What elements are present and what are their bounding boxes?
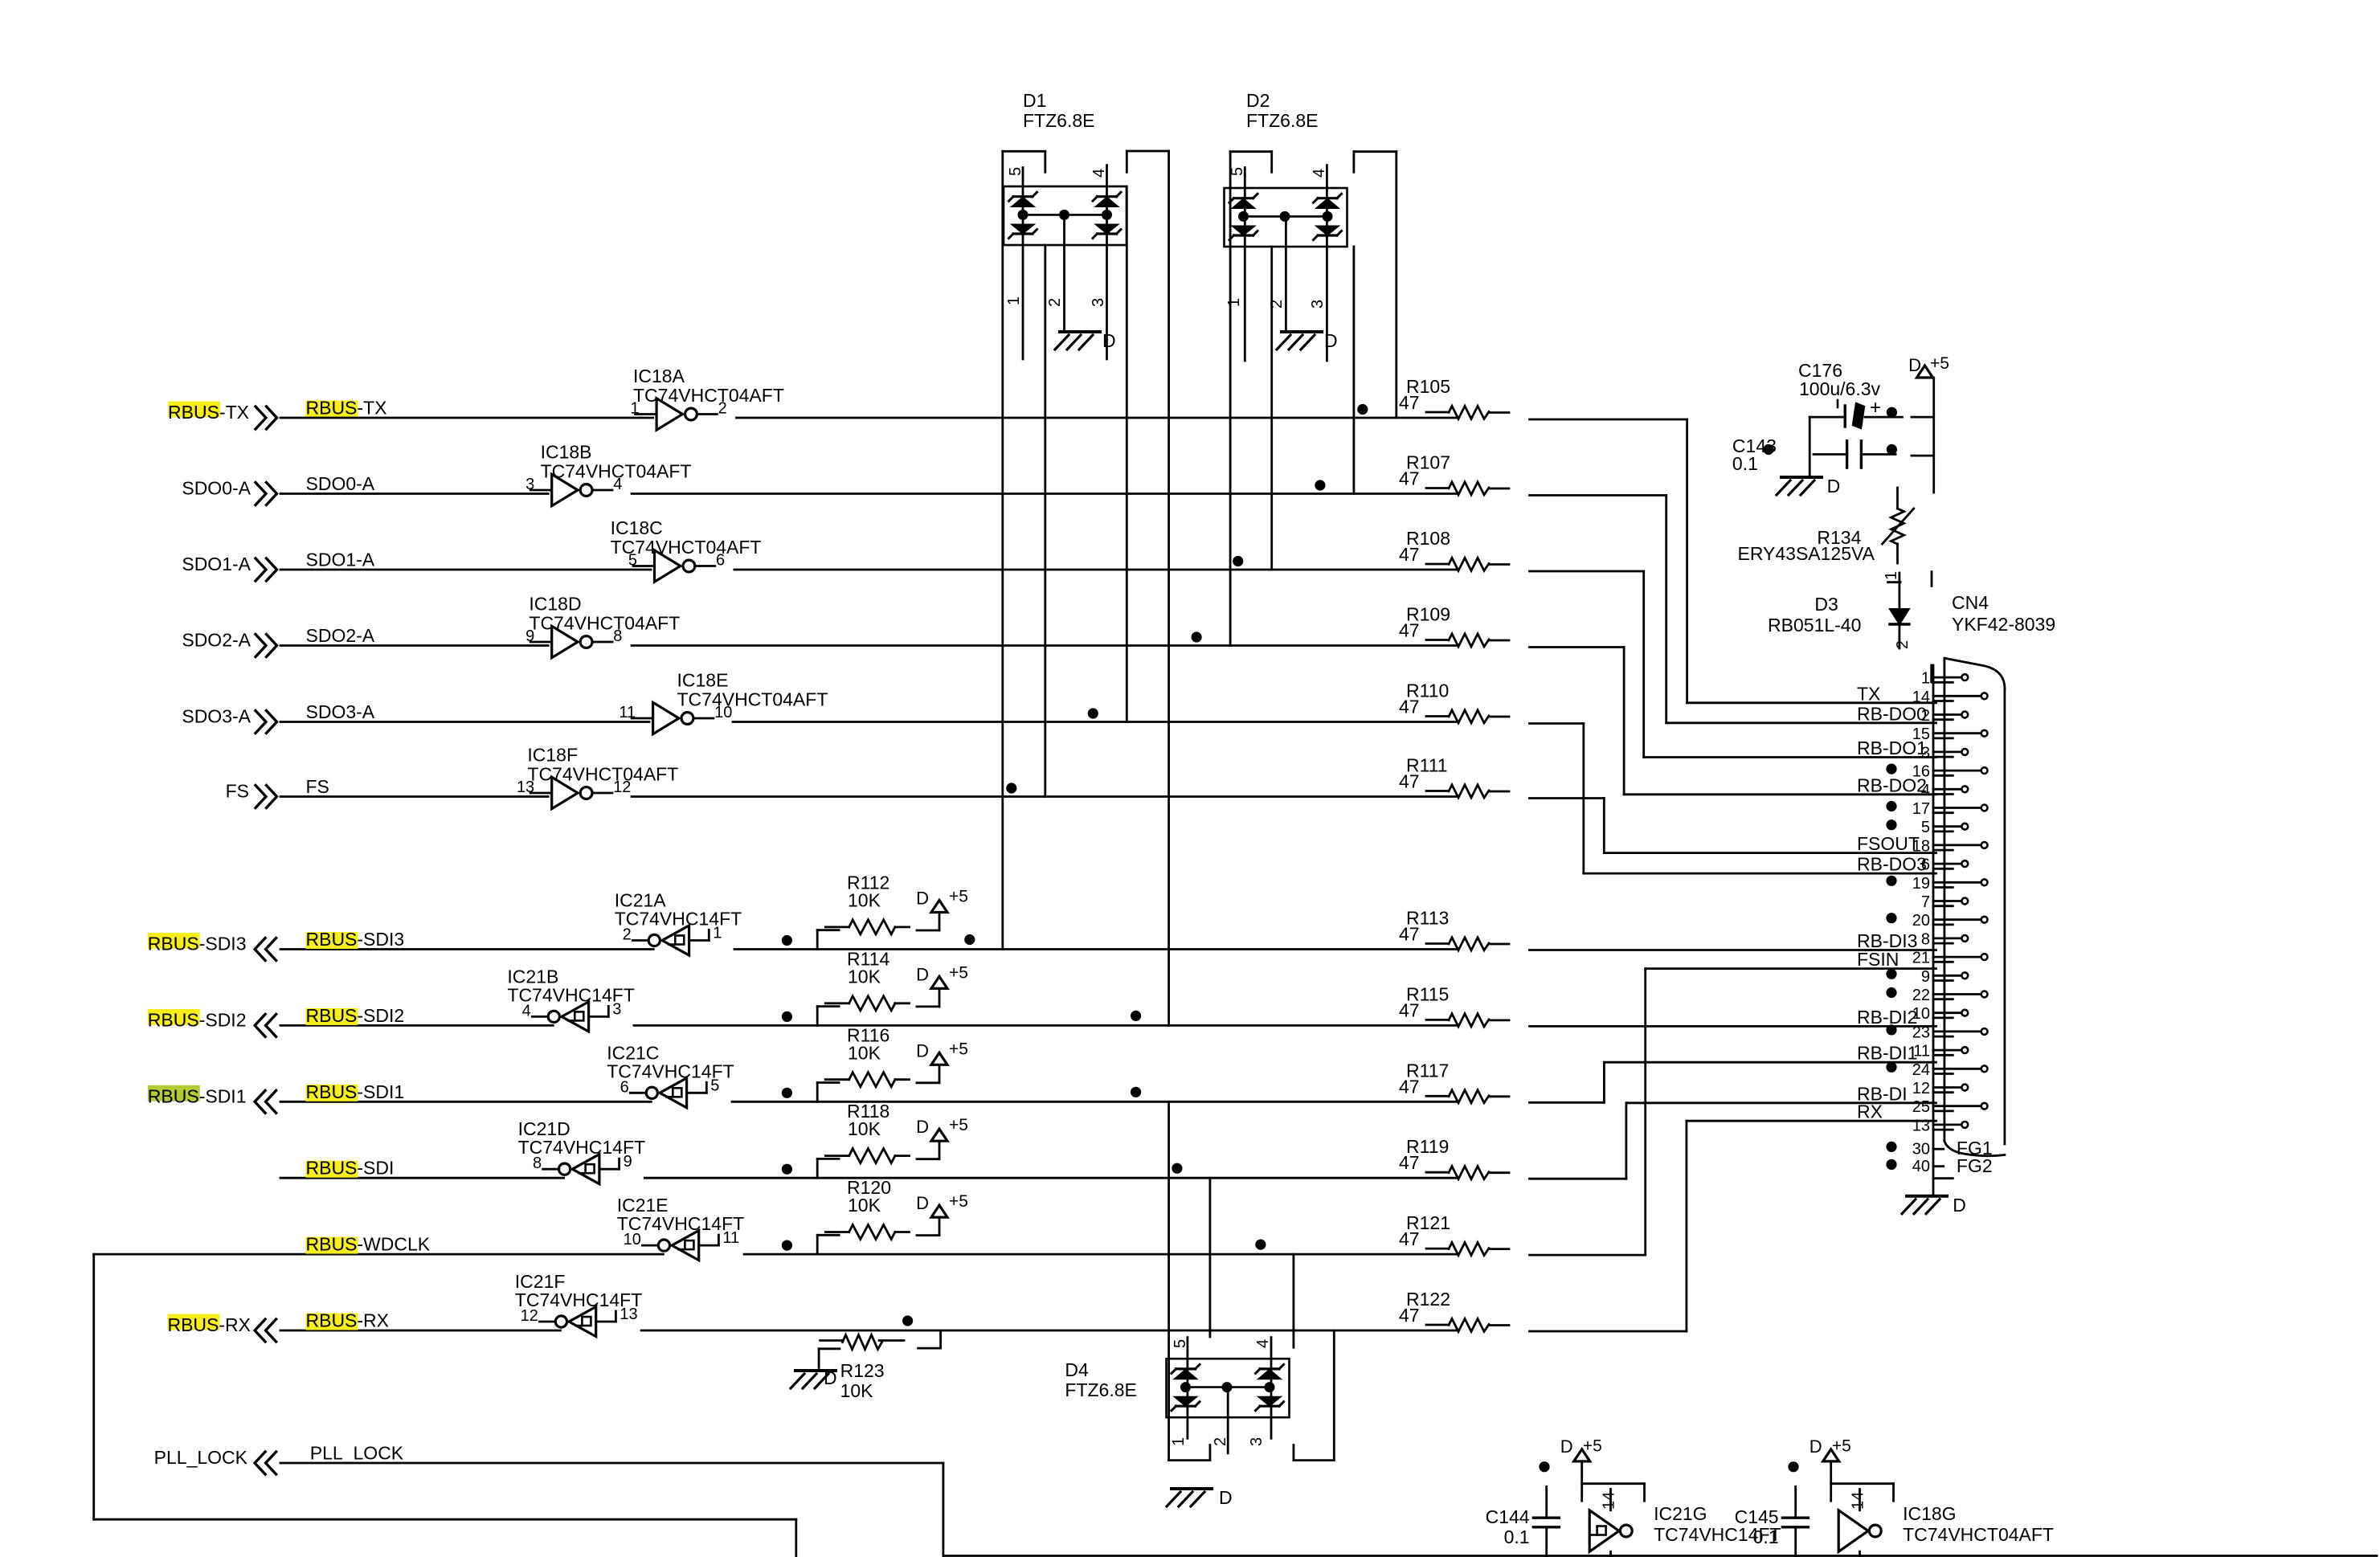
signal label RX — [1857, 1101, 1883, 1122]
junction dot (C176) — [1887, 407, 1897, 418]
wire bus v3 (to SDO3 row) — [1126, 151, 1128, 722]
signal label FSIN — [1857, 949, 1899, 970]
svg-text:RBUS-SDI1: RBUS-SDI1 — [306, 1081, 405, 1102]
schmitt inverter IC21F TC74VHC14FT — [515, 1271, 642, 1337]
net label PLL_LOCK — [310, 1443, 404, 1464]
diode array D4 FTZ6.8E — [1065, 1338, 1289, 1453]
power D+5 (R116) — [916, 1040, 968, 1065]
junction dot (SDO0 row) — [1315, 480, 1325, 490]
junction dot (pullup RBUS-SDI2) — [782, 1011, 792, 1022]
wire IC18A output line — [737, 417, 1458, 419]
svg-text:SDO0-A: SDO0-A — [306, 473, 375, 494]
net label SDO2-A — [306, 625, 375, 646]
connector CN4 pin 2 — [1921, 707, 1968, 725]
inverter IC18F TC74VHCT04AFT — [517, 745, 678, 809]
signal label FSOUT — [1857, 833, 1920, 854]
svg-text:IC18G: IC18G — [1903, 1503, 1956, 1524]
svg-text:47: 47 — [1399, 999, 1420, 1020]
connector CN4 pin 23 — [1886, 1024, 1987, 1041]
net label RBUS-WDCLK — [306, 1234, 431, 1255]
wire IC21E line to resistors — [744, 1253, 1457, 1256]
wire RB-DI route — [1530, 1103, 1936, 1179]
wire bus v8 (D2 right to RBUS-TX row) — [1395, 152, 1397, 418]
wire IC18F output line — [632, 795, 1457, 798]
svg-text:TC74VHC14FT: TC74VHC14FT — [518, 1137, 645, 1158]
wire CN4 pin bus — [1932, 665, 1935, 1195]
port RBUS-TX output chevron — [256, 407, 277, 429]
svg-text:10K: 10K — [848, 890, 881, 911]
wire route to RB-DO2 — [1530, 648, 1936, 795]
wire SDO3-A input line — [280, 721, 649, 723]
signal label RB-DI — [1857, 1083, 1908, 1104]
wire RX route — [1530, 1121, 1936, 1331]
svg-text:2: 2 — [1894, 640, 1912, 649]
connector CN4 pin 22 — [1886, 987, 1987, 1004]
wire stub (R134/D3) — [1931, 572, 1933, 586]
net label SDO1-A — [306, 550, 375, 570]
wire IC21B line to resistors — [634, 1024, 1457, 1027]
svg-text:RB-DO0: RB-DO0 — [1857, 703, 1927, 724]
wire D2 top-right bracket — [1354, 150, 1397, 153]
svg-text:TC74VHC14FT: TC74VHC14FT — [615, 909, 742, 930]
wire IC18B output line — [632, 492, 1457, 495]
svg-text:RB-DO3: RB-DO3 — [1857, 854, 1927, 875]
signal label RB-DI3 — [1857, 930, 1917, 951]
wire SDO2-A input line — [280, 644, 548, 647]
svg-text:14: 14 — [1850, 1492, 1867, 1510]
svg-text:14: 14 — [1601, 1492, 1618, 1510]
svg-text:TC74VHCT04AFT: TC74VHCT04AFT — [527, 764, 678, 785]
connector CN4 pin 4 — [1921, 782, 1968, 799]
wire SDO0-A input line — [280, 492, 548, 495]
svg-text:SDO2-A: SDO2-A — [306, 625, 375, 646]
svg-text:5: 5 — [1921, 819, 1930, 836]
wire bus v4 (D1 right to RBUS-SDI2 row) — [1168, 151, 1170, 1025]
svg-text:RBUS-WDCLK: RBUS-WDCLK — [306, 1234, 431, 1255]
connector CN4 pin 19 — [1886, 875, 1987, 893]
wire bus v7 (to SDO0 row) — [1353, 152, 1356, 494]
wire FSIN route — [1530, 969, 1936, 1256]
svg-text:1: 1 — [1883, 571, 1900, 580]
schmitt inverter IC21B TC74VHC14FT — [507, 966, 634, 1032]
svg-text:11: 11 — [619, 704, 636, 721]
wire C176/C143 left — [1809, 417, 1811, 476]
svg-text:YKF42-8039: YKF42-8039 — [1952, 614, 2055, 635]
svg-text:9: 9 — [1921, 968, 1930, 986]
svg-text:+5: +5 — [949, 1116, 968, 1134]
svg-text:47: 47 — [1399, 1228, 1420, 1249]
svg-text:0.1: 0.1 — [1753, 1526, 1779, 1547]
svg-text:RX: RX — [1857, 1101, 1883, 1122]
svg-text:47: 47 — [1399, 392, 1420, 413]
wire SDI1 to D4 bracket — [1169, 1101, 1210, 1460]
wire WDCLK left drop — [94, 1254, 796, 1557]
junction dot (C143 label) — [1763, 444, 1773, 455]
resistor R122 47 — [1399, 1289, 1509, 1331]
svg-text:D: D — [916, 889, 929, 909]
svg-text:TX: TX — [1857, 683, 1880, 704]
svg-text:21: 21 — [1912, 950, 1930, 967]
signal label RB-DI2 — [1857, 1007, 1917, 1028]
svg-text:IC18F: IC18F — [527, 745, 578, 766]
svg-text:4: 4 — [1254, 1339, 1272, 1348]
connector CN4 pin1 mark — [1930, 665, 1932, 682]
svg-text:+5: +5 — [1583, 1436, 1602, 1455]
net label RBUS-SDI1 — [306, 1081, 405, 1102]
schmitt inverter IC21A TC74VHC14FT — [615, 890, 742, 956]
svg-text:+5: +5 — [949, 1040, 968, 1058]
svg-text:7: 7 — [1921, 893, 1930, 911]
schmitt inverter IC21D TC74VHC14FT — [518, 1118, 645, 1184]
svg-text:1: 1 — [1005, 296, 1023, 305]
wire D1 top-right bracket — [1127, 150, 1168, 153]
svg-text:RB-DI2: RB-DI2 — [1857, 1007, 1917, 1028]
resistor R109 47 — [1399, 604, 1509, 647]
svg-text:IC18A: IC18A — [633, 366, 685, 386]
svg-text:D: D — [916, 1040, 929, 1060]
ground D (R123) — [791, 1367, 837, 1388]
svg-text:ERY43SA125VA: ERY43SA125VA — [1738, 543, 1875, 564]
wire bus v6 (to SDO1 row) — [1270, 152, 1273, 570]
port label PLL_LOCK — [154, 1447, 248, 1468]
svg-text:RB-DO1: RB-DO1 — [1857, 738, 1927, 758]
junction dot (C143 right) — [1887, 444, 1897, 455]
connector CN4 pin 13 — [1912, 1117, 1968, 1134]
svg-text:19: 19 — [1912, 875, 1930, 893]
svg-text:D: D — [916, 964, 929, 984]
svg-text:FTZ6.8E: FTZ6.8E — [1023, 110, 1094, 131]
svg-text:5: 5 — [1172, 1339, 1189, 1348]
connector CN4 pin 17 — [1886, 800, 1987, 818]
svg-text:TC74VHC14FT: TC74VHC14FT — [507, 984, 634, 1005]
svg-text:TC74VHC14FT: TC74VHC14FT — [607, 1060, 734, 1081]
svg-text:24: 24 — [1912, 1061, 1930, 1079]
resistor R110 47 — [1399, 680, 1509, 723]
svg-text:TC74VHCT04AFT: TC74VHCT04AFT — [611, 537, 762, 558]
inverter IC18D TC74VHCT04AFT — [525, 594, 680, 658]
svg-text:PLL_LOCK: PLL_LOCK — [310, 1443, 404, 1464]
ground D (D4 pin2) — [1167, 1487, 1233, 1508]
svg-text:SDO1-A: SDO1-A — [182, 554, 251, 574]
svg-text:RBUS-SDI3: RBUS-SDI3 — [306, 929, 405, 950]
port label SDO1-A — [182, 554, 251, 574]
wire IC21D line to resistors — [644, 1177, 1457, 1179]
port SDO1-A output chevron — [256, 558, 277, 581]
diode D3 RB051L-40 — [1768, 571, 1912, 649]
junction dot (pullup RBUS-SDI) — [782, 1164, 792, 1175]
svg-text:20: 20 — [1912, 912, 1930, 930]
connector CN4 pin 9 — [1886, 968, 1968, 986]
port RBUS-SDI1 input chevron — [255, 1090, 276, 1113]
connector CN4 pin 11 — [1913, 1043, 1968, 1060]
power D+5 (R118) — [916, 1116, 968, 1141]
connector CN4 pin 21 — [1912, 950, 1988, 967]
svg-text:RBUS-SDI2: RBUS-SDI2 — [306, 1005, 405, 1026]
svg-text:R123: R123 — [840, 1360, 885, 1381]
svg-text:RBUS-TX: RBUS-TX — [168, 402, 249, 423]
power D+5 (R114) — [916, 963, 968, 988]
junction dot (pullup RBUS-SDI3) — [782, 935, 792, 946]
svg-text:1: 1 — [1225, 298, 1243, 307]
svg-text:13: 13 — [1912, 1117, 1930, 1134]
schmitt inverter IC21E TC74VHC14FT — [617, 1195, 744, 1261]
junction dot (SDO1 row) — [1233, 556, 1243, 566]
wire route to RB-DO1 — [1530, 571, 1936, 758]
connector CN4 pin 12 — [1912, 1080, 1968, 1097]
svg-text:SDO3-A: SDO3-A — [306, 701, 375, 722]
svg-text:+: + — [1870, 397, 1881, 419]
svg-text:8: 8 — [1921, 930, 1930, 948]
power D+5 (top right) — [1908, 354, 1949, 378]
port label SDO3-A — [182, 706, 251, 727]
wire RBUS-WDCLK input line — [94, 1253, 664, 1256]
wire D1 top-left bracket — [1003, 150, 1045, 153]
svg-text:22: 22 — [1912, 987, 1930, 1004]
junction dot (FS row) — [1006, 783, 1016, 793]
wire route to RB-DO3 — [1530, 724, 1936, 874]
svg-text:4: 4 — [1311, 169, 1328, 178]
svg-text:1: 1 — [1170, 1437, 1188, 1446]
port label SDO0-A — [182, 478, 251, 499]
svg-text:FS: FS — [306, 776, 329, 797]
wire IC21C line to resistors — [732, 1101, 1457, 1103]
svg-text:47: 47 — [1399, 924, 1420, 945]
svg-text:IC21G: IC21G — [1654, 1503, 1707, 1524]
wire RBUS-SDI1 input line — [280, 1101, 651, 1103]
net label RBUS-TX — [306, 398, 387, 419]
signal label RB-DO0 — [1857, 703, 1927, 724]
svg-text:RBUS-RX: RBUS-RX — [167, 1314, 251, 1335]
svg-text:FG2: FG2 — [1957, 1155, 1993, 1176]
svg-text:FSIN: FSIN — [1857, 949, 1899, 970]
power D+5 (R112) — [916, 888, 968, 913]
svg-text:SDO2-A: SDO2-A — [182, 630, 251, 651]
connector CN4 pin 3 — [1921, 744, 1968, 762]
wire route to RB-DO0 — [1530, 496, 1936, 723]
port SDO2-A output chevron — [256, 635, 277, 657]
svg-text:D: D — [1908, 355, 1921, 375]
net label RBUS-SDI2 — [306, 1005, 405, 1026]
capacitor C145 0.1 / spare gate IC18G TC74VHCT04AFT — [1735, 1436, 2054, 1557]
svg-text:3: 3 — [1248, 1437, 1266, 1446]
wire SDO1-A input line — [280, 569, 651, 571]
svg-text:+5: +5 — [949, 1192, 968, 1211]
svg-text:40: 40 — [1912, 1158, 1930, 1175]
svg-text:C144: C144 — [1486, 1506, 1530, 1527]
svg-text:2: 2 — [1046, 298, 1064, 307]
resistor R121 47 — [1399, 1212, 1509, 1255]
svg-text:TC74VHCT04AFT: TC74VHCT04AFT — [541, 461, 692, 482]
svg-text:1: 1 — [1921, 670, 1930, 688]
svg-text:FS: FS — [226, 781, 249, 802]
junction dot (WDCLK row) — [1255, 1240, 1266, 1250]
svg-text:IC18B: IC18B — [541, 442, 592, 463]
svg-text:RBUS-TX: RBUS-TX — [306, 398, 387, 419]
net label RBUS-RX — [306, 1310, 390, 1331]
svg-text:FTZ6.8E: FTZ6.8E — [1065, 1379, 1136, 1400]
power D+5 (R120) — [916, 1192, 968, 1217]
wire RBUS-RX input line — [280, 1330, 560, 1332]
svg-text:IC18D: IC18D — [529, 594, 581, 615]
svg-text:FTZ6.8E: FTZ6.8E — [1246, 110, 1318, 131]
port FS output chevron — [256, 786, 277, 808]
svg-text:RBUS-SDI3: RBUS-SDI3 — [148, 934, 247, 954]
wire IC18D output line — [632, 644, 1457, 647]
resistor R119 47 — [1399, 1136, 1509, 1179]
resistor R114 10K pullup — [817, 948, 939, 1025]
svg-text:12: 12 — [1912, 1080, 1930, 1097]
wire SDI to D4 pin5 stub — [1209, 1178, 1212, 1337]
inverter IC18B TC74VHCT04AFT — [525, 442, 691, 506]
wire RBUS-SDI3 input line — [280, 948, 653, 950]
svg-text:RBUS-SDI1: RBUS-SDI1 — [148, 1085, 247, 1106]
svg-text:D: D — [1324, 330, 1338, 351]
svg-text:17: 17 — [1912, 800, 1930, 818]
wire RBUS-SDI input line — [280, 1177, 564, 1179]
wire RB-DI1 route — [1530, 1062, 1936, 1102]
resistor R108 47 — [1399, 528, 1509, 570]
resistor R117 47 — [1399, 1060, 1509, 1102]
svg-text:0.1: 0.1 — [1504, 1526, 1530, 1547]
svg-text:5: 5 — [1007, 167, 1024, 176]
wire route to FSOUT — [1530, 799, 1936, 853]
svg-text:10K: 10K — [848, 1195, 881, 1216]
svg-text:D: D — [824, 1367, 837, 1388]
connector CN4 pin 15 — [1912, 725, 1988, 743]
svg-text:D: D — [916, 1193, 929, 1213]
net label FS — [306, 776, 329, 797]
svg-text:D: D — [1827, 476, 1841, 497]
svg-text:IC18E: IC18E — [677, 670, 729, 691]
wire IC18E output line — [733, 721, 1457, 723]
svg-text:+5: +5 — [1832, 1436, 1851, 1455]
svg-text:D: D — [1953, 1195, 1966, 1216]
svg-text:TC74VHC14FT: TC74VHC14FT — [515, 1289, 642, 1310]
port RBUS-SDI3 input chevron — [255, 938, 276, 961]
signal label RB-DO2 — [1857, 774, 1927, 795]
junction dot (SDI3 row) — [964, 934, 975, 945]
resistor R107 47 — [1399, 452, 1509, 495]
connector CN4 pin 6 — [1921, 856, 1968, 874]
svg-text:+5: +5 — [949, 888, 968, 906]
junction dot (SDO3 row) — [1088, 708, 1098, 718]
port label RBUS-SDI2 — [148, 1009, 247, 1031]
connector CN4 pin 1 — [1921, 670, 1968, 688]
wire route to TX — [1530, 419, 1936, 703]
resistor R111 47 — [1399, 755, 1509, 798]
svg-text:4: 4 — [1090, 169, 1108, 178]
svg-text:+5: +5 — [1930, 354, 1949, 373]
inverter IC18A TC74VHCT04AFT — [630, 366, 783, 430]
net label SDO0-A — [306, 473, 375, 494]
net label RBUS-SDI3 — [306, 929, 405, 950]
svg-text:TC74VHCT04AFT: TC74VHCT04AFT — [633, 385, 784, 406]
svg-text:10K: 10K — [848, 1118, 881, 1139]
svg-text:FSOUT: FSOUT — [1857, 833, 1920, 854]
svg-text:3: 3 — [1090, 298, 1107, 307]
svg-text:47: 47 — [1399, 620, 1420, 641]
svg-text:30: 30 — [1912, 1141, 1930, 1159]
port RBUS-SDI2 input chevron — [255, 1014, 276, 1036]
junction dot (SDI2 row) — [1131, 1011, 1141, 1021]
svg-text:D2: D2 — [1246, 90, 1270, 111]
svg-text:PLL_LOCK: PLL_LOCK — [154, 1447, 248, 1468]
junction dot (pullup RBUS-SDI1) — [782, 1088, 792, 1098]
resistor R113 47 — [1399, 908, 1509, 950]
svg-text:SDO1-A: SDO1-A — [306, 550, 375, 570]
junction dot (pullup RBUS-WDCLK) — [782, 1240, 792, 1251]
svg-text:TC74VHCT04AFT: TC74VHCT04AFT — [677, 689, 828, 710]
wire bus v2 (to FS row) — [1044, 151, 1046, 796]
diode array D2 FTZ6.8E — [1225, 90, 1347, 361]
svg-text:3: 3 — [1309, 300, 1327, 309]
svg-text:SDO0-A: SDO0-A — [182, 478, 251, 499]
svg-text:TC74VHCT04AFT: TC74VHCT04AFT — [529, 613, 680, 634]
svg-text:2: 2 — [1212, 1437, 1229, 1446]
connector CN4 pin 24 — [1886, 1061, 1987, 1079]
ground D (CN4) — [1902, 1195, 1966, 1216]
wire PLL_LOCK — [280, 1463, 2377, 1556]
svg-text:3: 3 — [525, 476, 534, 493]
diode array D1 FTZ6.8E — [1004, 90, 1127, 359]
svg-text:D: D — [1560, 1436, 1573, 1457]
svg-text:10K: 10K — [848, 1042, 881, 1063]
signal label TX — [1857, 683, 1880, 704]
svg-text:+5: +5 — [949, 963, 968, 982]
connector CN4 pin 5 — [1886, 819, 1968, 836]
wire IC18C output line — [734, 569, 1457, 571]
resistor R123 10K pulldown — [819, 1330, 941, 1401]
resistor R116 10K pullup — [817, 1024, 939, 1101]
net label SDO3-A — [306, 701, 375, 722]
port PLL_LOCK input chevron — [255, 1452, 276, 1474]
thermistor R134 ERY43SA125VA — [1738, 488, 1914, 564]
svg-text:10K: 10K — [840, 1380, 874, 1401]
svg-text:RB-DO2: RB-DO2 — [1857, 774, 1927, 795]
wire FS input line — [280, 795, 548, 798]
svg-text:47: 47 — [1399, 771, 1420, 792]
svg-text:IC18C: IC18C — [611, 517, 663, 538]
svg-text:RB-DI3: RB-DI3 — [1857, 930, 1917, 951]
wire IC21A line to resistors — [734, 948, 1457, 950]
wire bus v5 (D2 left to SDO2 row) — [1229, 152, 1232, 646]
label CN4 — [1952, 592, 2055, 635]
svg-text:RBUS-SDI2: RBUS-SDI2 — [148, 1009, 247, 1030]
svg-text:D: D — [1102, 330, 1116, 351]
wire RBUS-TX input line — [280, 417, 653, 419]
svg-text:CN4: CN4 — [1952, 592, 1989, 613]
svg-text:0.1: 0.1 — [1732, 453, 1758, 474]
junction dot (RX row) — [902, 1315, 913, 1326]
svg-text:47: 47 — [1399, 1076, 1420, 1097]
connector CN4 pin 25 — [1912, 1098, 1988, 1116]
port label RBUS-SDI1 — [148, 1085, 247, 1107]
net label RBUS-SDI — [306, 1158, 395, 1179]
signal label RB-DO1 — [1857, 738, 1927, 758]
inverter IC18C TC74VHCT04AFT — [611, 517, 762, 582]
ground D (D1 pin2) — [1055, 330, 1116, 351]
svg-text:TC74VHC14FT: TC74VHC14FT — [617, 1213, 744, 1234]
wire bus v1 (D1 left to RBUS-SDI3 row) — [1001, 151, 1004, 949]
svg-text:25: 25 — [1912, 1098, 1930, 1116]
port SDO3-A output chevron — [256, 711, 277, 734]
svg-text:23: 23 — [1912, 1024, 1930, 1041]
port label RBUS-SDI3 — [148, 933, 247, 954]
svg-text:D: D — [1219, 1487, 1233, 1508]
svg-text:D: D — [1810, 1436, 1822, 1457]
wire D+5 vertical — [1932, 378, 1935, 492]
connector CN4 pin 14 — [1912, 689, 1988, 706]
